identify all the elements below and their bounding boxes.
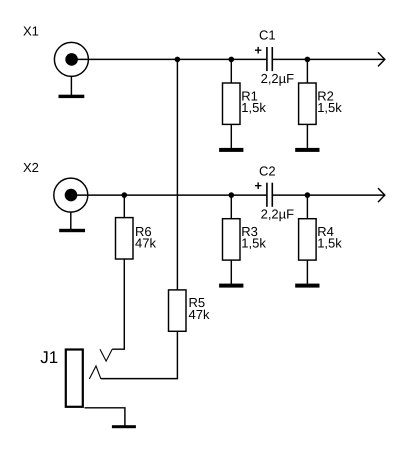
wire R1 top [230, 59, 232, 83]
connector X2 [54, 178, 88, 212]
svg-text:X1: X1 [23, 23, 39, 38]
junction node R2 [305, 57, 311, 63]
arrow output 2 [378, 188, 385, 202]
ground (X1) [59, 76, 85, 98]
resistor R2 [299, 83, 317, 124]
svg-text:1,5k: 1,5k [317, 100, 342, 115]
wire vertical X1 net to R5 [176, 59, 178, 290]
svg-text:X2: X2 [23, 160, 39, 175]
wire R4 top [306, 195, 308, 219]
junction node R4 [305, 192, 311, 198]
svg-text:1,5k: 1,5k [241, 236, 266, 251]
svg-text:2,2µF: 2,2µF [261, 71, 295, 86]
junction node R1 [229, 57, 235, 63]
resistor R6 [116, 218, 134, 259]
connector J1 body [66, 350, 83, 407]
ground (R1) [219, 148, 243, 152]
ground (J1) [112, 425, 136, 428]
jack J1 ring contact [100, 349, 112, 361]
svg-text:+: + [254, 42, 262, 57]
connector X1 [54, 42, 88, 76]
wire R3 to ground [230, 260, 232, 284]
svg-text:C1: C1 [259, 28, 276, 43]
wire C1 to output 1 [272, 58, 384, 60]
svg-text:2,2µF: 2,2µF [261, 207, 295, 222]
jack J1 tip contact [89, 366, 101, 379]
wire C2 to output 2 [272, 194, 384, 196]
wire R6 to jack ring [112, 259, 124, 349]
wire J1 sleeve to ground [85, 408, 125, 426]
resistor R5 [169, 290, 187, 331]
svg-text:47k: 47k [135, 236, 156, 251]
ground (R4) [295, 284, 319, 288]
resistor R3 [223, 219, 241, 260]
svg-text:47k: 47k [189, 307, 210, 322]
wire R4 to ground [306, 260, 308, 284]
resistor R4 [299, 219, 317, 260]
capacitor C2 [267, 183, 272, 207]
wire R2 to ground [306, 124, 308, 148]
svg-text:C2: C2 [259, 163, 276, 178]
svg-text:+: + [254, 178, 262, 193]
junction node R3 [229, 192, 235, 198]
ground (R3) [219, 284, 243, 288]
wire R3 top [230, 195, 232, 219]
capacitor C1 [267, 47, 272, 71]
junction node R6 [122, 192, 128, 198]
wire R1 to ground [230, 124, 232, 148]
wire R6 top [123, 195, 125, 218]
svg-text:J1: J1 [40, 348, 58, 367]
wire X1 to C1 [72, 58, 267, 60]
wire R2 top [306, 59, 308, 83]
junction node X1/vertical [175, 57, 181, 63]
wire X2 to C2 [71, 194, 266, 196]
ground (X2) [59, 212, 85, 232]
ground (R2) [295, 148, 319, 152]
resistor R1 [223, 83, 241, 124]
svg-text:1,5k: 1,5k [317, 236, 342, 251]
arrow output 1 [378, 52, 385, 66]
svg-text:1,5k: 1,5k [241, 100, 266, 115]
wire R5 to jack tip [101, 331, 177, 378]
